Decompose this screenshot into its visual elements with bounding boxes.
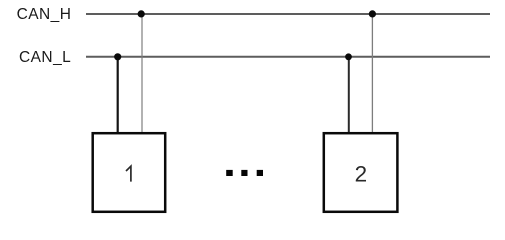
svg-text:CAN_L: CAN_L	[19, 49, 71, 66]
ellipsis dot 2	[241, 170, 247, 176]
wire stub node 2 CAN_H drop	[371, 14, 373, 133]
wire stub node 1 CAN_H drop	[141, 14, 143, 133]
wire stub node 1 CAN_L drop	[117, 57, 119, 133]
wire CAN_L bus line	[86, 56, 490, 58]
junction dot CAN_H node 2	[369, 10, 376, 17]
svg-text:2: 2	[355, 161, 368, 186]
node 2 box	[324, 133, 398, 212]
junction dot CAN_L node 2	[345, 53, 352, 60]
junction dot CAN_L node 1	[114, 53, 121, 60]
svg-text:CAN_H: CAN_H	[17, 6, 72, 23]
wire CAN_H bus line	[86, 13, 490, 15]
wire stub node 2 CAN_L drop	[348, 57, 350, 133]
junction dot CAN_H node 1	[138, 10, 145, 17]
ellipsis dot 1	[226, 170, 233, 176]
node 1 box	[93, 133, 166, 212]
node 1 label "1"	[126, 166, 131, 181]
ellipsis dot 3	[257, 170, 263, 176]
